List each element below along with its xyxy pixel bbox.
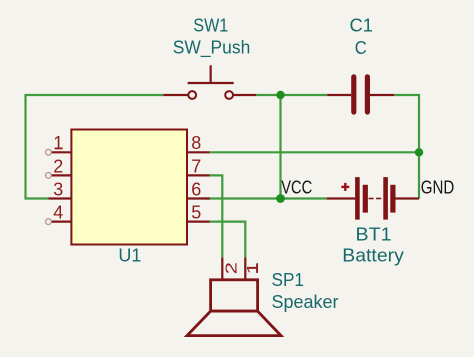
svg-text:1: 1 bbox=[53, 133, 63, 153]
U1 pin 4 bbox=[46, 203, 72, 225]
junction at pin8/GND vertical bbox=[415, 148, 423, 156]
U1 pin 5 bbox=[187, 203, 210, 223]
battery BT1 bbox=[327, 177, 419, 220]
svg-text:7: 7 bbox=[191, 156, 201, 176]
svg-text:1: 1 bbox=[245, 262, 262, 274]
wire: U1 pin5 down to speaker pin1 bbox=[210, 222, 246, 258]
svg-text:8: 8 bbox=[191, 133, 201, 153]
svg-text:BT1: BT1 bbox=[356, 224, 392, 244]
svg-text:5: 5 bbox=[191, 203, 201, 223]
U1 pin 2 bbox=[46, 156, 72, 178]
svg-text:GND: GND bbox=[421, 178, 455, 198]
svg-text:SP1: SP1 bbox=[272, 270, 305, 290]
junction at switch output bbox=[276, 91, 284, 99]
svg-text:Speaker: Speaker bbox=[272, 292, 339, 312]
wire: U1 pin8 to right vertical bbox=[210, 151, 419, 153]
switch SW1 bbox=[163, 65, 256, 99]
svg-text:2: 2 bbox=[53, 156, 63, 176]
svg-text:6: 6 bbox=[191, 179, 201, 199]
wire: U1 pin7 down to speaker pin2 bbox=[210, 175, 223, 257]
svg-text:4: 4 bbox=[53, 203, 63, 223]
svg-text:U1: U1 bbox=[118, 245, 141, 265]
svg-text:Battery: Battery bbox=[342, 246, 404, 266]
wire: switch right to capacitor left bbox=[256, 94, 327, 96]
wire: switch junction down to VCC junction bbox=[279, 95, 281, 199]
battery plus sign bbox=[341, 183, 349, 191]
svg-text:2: 2 bbox=[223, 262, 240, 274]
U1 pin 6 bbox=[187, 179, 210, 199]
svg-text:3: 3 bbox=[53, 179, 63, 199]
wire: U1 pin6 to battery plus (VCC rail) bbox=[205, 197, 327, 199]
svg-text:SW1: SW1 bbox=[193, 16, 228, 36]
U1 pin 3 bbox=[49, 179, 72, 199]
U1 pin 7 bbox=[187, 156, 210, 176]
svg-text:C1: C1 bbox=[350, 16, 374, 36]
svg-text:C: C bbox=[355, 38, 367, 58]
svg-text:SW_Push: SW_Push bbox=[173, 37, 251, 58]
U1 pin 1 bbox=[46, 133, 72, 155]
capacitor C1 bbox=[327, 77, 394, 112]
U1 pin 8 bbox=[187, 133, 210, 153]
wire: top-left run to U1 pin3 bbox=[26, 95, 164, 199]
speaker SP1 bbox=[187, 257, 281, 335]
op-amp U1 body bbox=[71, 130, 187, 245]
junction at VCC bbox=[276, 194, 285, 203]
svg-text:VCC: VCC bbox=[281, 178, 312, 198]
wire: capacitor right, corner, down right vertical bbox=[394, 95, 419, 199]
